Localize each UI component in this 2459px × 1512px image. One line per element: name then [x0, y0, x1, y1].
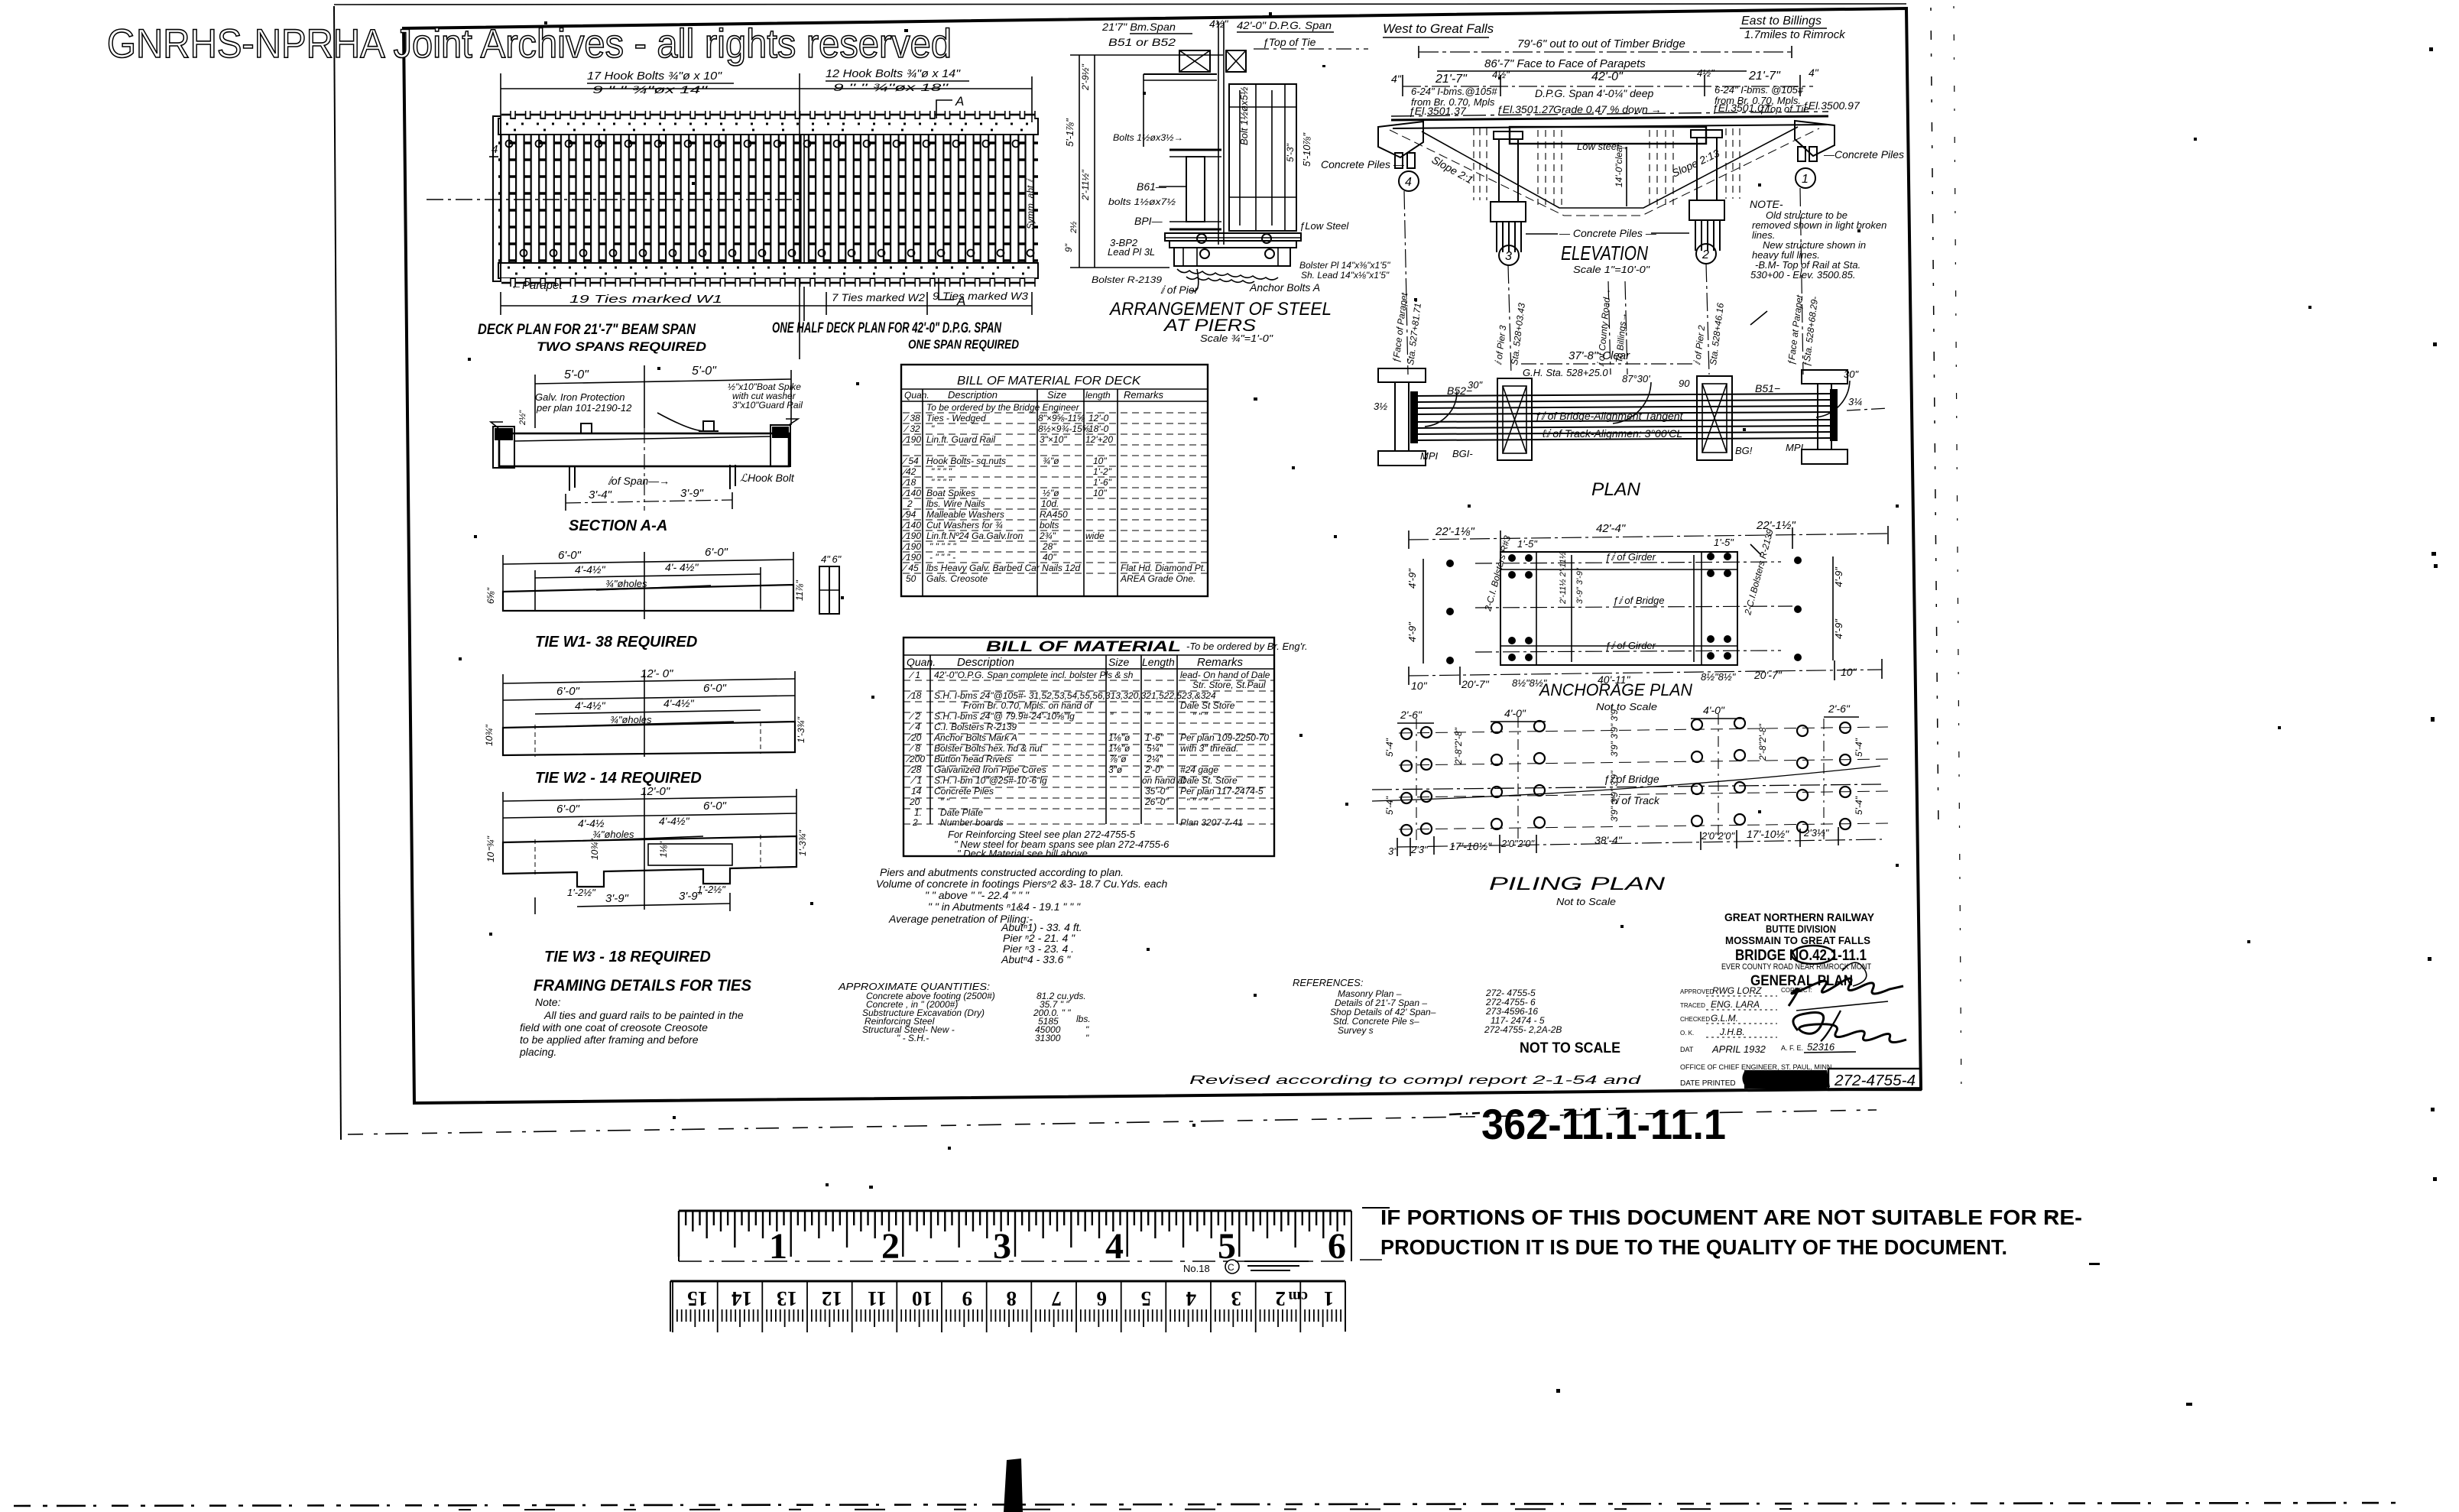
svg-text:ƒSta. 528+68.29-: ƒSta. 528+68.29-	[1801, 296, 1820, 367]
svg-text:12: 12	[822, 1287, 842, 1310]
svg-text:5: 5	[1141, 1287, 1152, 1310]
svg-text:6'-0": 6'-0"	[703, 800, 727, 813]
section arrow A bottom	[939, 278, 954, 300]
svg-text:MPI: MPI	[1420, 450, 1439, 462]
svg-text:Not to Scale: Not to Scale	[1556, 896, 1616, 907]
svg-text:Survey s: Survey s	[1338, 1025, 1374, 1036]
svg-text:2½": 2½"	[518, 410, 527, 426]
svg-text:2: 2	[1276, 1287, 1286, 1310]
svg-text:6'-0": 6'-0"	[703, 682, 727, 695]
svg-text:NOTE-: NOTE-	[1750, 198, 1783, 210]
svg-text:1'-5": 1'-5"	[1517, 538, 1538, 550]
svg-text:2'0"2'0": 2'0"2'0"	[1701, 830, 1735, 842]
svg-text:11⅞": 11⅞"	[794, 580, 805, 601]
svg-text:∕ 54: ∕ 54	[901, 456, 919, 466]
svg-text:Dale St. Store: Dale St. Store	[1180, 775, 1238, 786]
svg-text:20'-7": 20'-7"	[1753, 669, 1783, 681]
svg-text:28": 28"	[1042, 541, 1056, 552]
svg-text:4": 4"	[1809, 67, 1819, 79]
svg-text:14: 14	[911, 786, 922, 797]
svg-text:6-24" I-bms.@105#: 6-24" I-bms.@105#	[1411, 86, 1497, 97]
svg-text:1⅛": 1⅛"	[658, 841, 669, 858]
svg-text:ⅈ of Pier: ⅈ of Pier	[1160, 284, 1199, 296]
svg-text:Date Plate: Date Plate	[940, 807, 983, 818]
svg-text:17'-10½": 17'-10½"	[1449, 840, 1492, 852]
svg-text:": "	[1147, 711, 1150, 722]
svg-text:lead- On hand of Dale: lead- On hand of Dale	[1180, 670, 1270, 680]
svg-text:cm: cm	[1288, 1288, 1308, 1305]
main border frame	[404, 8, 1921, 1103]
svg-text:4'-4½": 4'-4½"	[659, 815, 690, 827]
tie W3 notched bar	[503, 836, 796, 887]
svg-text:4" 6": 4" 6"	[821, 553, 842, 565]
svg-text:#24 gage: #24 gage	[1180, 764, 1218, 775]
svg-text:4": 4"	[1391, 73, 1402, 85]
angle arcs	[1425, 391, 1457, 427]
svg-text:2'-8"2'-8": 2'-8"2'-8"	[1453, 727, 1464, 765]
tie W2 group	[484, 667, 806, 787]
svg-text:3: 3	[1505, 250, 1512, 263]
girder and bridge centerlines	[1475, 562, 1781, 563]
svg-text:5'-4": 5'-4"	[1854, 738, 1864, 757]
svg-text:10": 10"	[1841, 666, 1857, 678]
svg-text:Note:: Note:	[535, 996, 561, 1008]
svg-text:5'-4": 5'-4"	[1384, 796, 1395, 815]
top dim line	[1409, 534, 1888, 540]
svg-text:Dale St Store: Dale St Store	[1180, 700, 1235, 711]
bolster plate stack	[1165, 233, 1301, 241]
svg-text:RA450: RA450	[1040, 509, 1068, 520]
pile circles left abutment	[1401, 727, 1432, 835]
svg-text:—Concrete Piles: —Concrete Piles	[1823, 148, 1904, 161]
anchorage plan group	[1406, 519, 1888, 712]
svg-text:10d.: 10d.	[1041, 498, 1059, 509]
faint vertical fold line 1	[1931, 8, 1938, 829]
svg-text:1.7miles to Rimrock: 1.7miles to Rimrock	[1744, 28, 1846, 41]
svg-text:" - S.H.-: " - S.H.-	[897, 1033, 929, 1043]
svg-text:∕94: ∕94	[901, 509, 916, 520]
svg-text:∕200: ∕200	[905, 754, 925, 764]
svg-text:13: 13	[777, 1287, 797, 1310]
bridge and track centerlines	[1372, 784, 1882, 790]
piling plan group	[1372, 702, 1888, 907]
svg-text:5'-10⅞": 5'-10⅞"	[1301, 132, 1312, 167]
svg-text:∕ 38: ∕ 38	[903, 413, 920, 423]
svg-text:" Deck Material see bill: " Deck Material see bill above.	[957, 848, 1090, 859]
svg-text:J.H.B.: J.H.B.	[1719, 1027, 1745, 1037]
svg-text:2'-11½": 2'-11½"	[1080, 170, 1091, 201]
svg-text:3¼: 3¼	[1848, 396, 1862, 407]
sheet outer trim line left	[334, 6, 341, 1140]
svg-text:Concrete Piles: Concrete Piles	[934, 786, 994, 797]
cm ruler	[670, 1281, 1345, 1332]
svg-text:2'-6": 2'-6"	[1400, 709, 1423, 721]
bottom dim line	[1397, 839, 1882, 847]
svg-text:OFFICE OF CHIEF ENGINEER, ST.: OFFICE OF CHIEF ENGINEER, ST. PAUL, MINN…	[1680, 1063, 1834, 1071]
svg-text:D.P.G. Span 4'-0¼" deep: D.P.G. Span 4'-0¼" deep	[1535, 87, 1653, 99]
svg-text:B51−: B51−	[1755, 382, 1780, 394]
svg-text:21'-7": 21'-7"	[1435, 73, 1468, 86]
svg-text:12'-0: 12'-0	[1088, 413, 1109, 423]
svg-text:ONE SPAN REQUIRED: ONE SPAN REQUIRED	[908, 337, 1019, 352]
svg-text:8½"8½": 8½"8½"	[1701, 671, 1737, 683]
svg-text:SECTION A-A: SECTION A-A	[569, 518, 667, 534]
angle marks on beam ends	[491, 422, 503, 428]
svg-text:12'-0": 12'-0"	[641, 785, 670, 798]
concrete rough texture	[1177, 269, 1278, 280]
svg-text:2-C.I.Bolsters R-2139: 2-C.I.Bolsters R-2139	[1742, 527, 1776, 616]
svg-text:30": 30"	[1844, 368, 1859, 380]
svg-text:BILL OF MATERIAL FOR DECK: BILL OF MATERIAL FOR DECK	[957, 375, 1141, 388]
deck left end post	[493, 116, 501, 281]
right abutment plan	[1802, 370, 1847, 384]
references	[1293, 977, 1562, 1036]
svg-text:3"x10"Guard Rail: 3"x10"Guard Rail	[732, 400, 803, 410]
svg-text:All ties and guard rails to be: All ties and guard rails to be painted i…	[543, 1009, 744, 1021]
svg-text:Plan 3207-7-41: Plan 3207-7-41	[1180, 817, 1243, 828]
svg-text:7 Ties marked W2: 7 Ties marked W2	[832, 291, 925, 303]
svg-text:Anchor Bolts A: Anchor Bolts A	[1249, 281, 1320, 294]
svg-text:TRACED: TRACED	[1680, 1002, 1705, 1009]
svg-text:3'-9": 3'-9"	[605, 892, 629, 905]
svg-text:12'- 0": 12'- 0"	[641, 667, 673, 680]
svg-text:22'-1⅛": 22'-1⅛"	[1435, 525, 1474, 538]
svg-text:1'-5": 1'-5"	[1714, 537, 1734, 548]
svg-text:∕42: ∕42	[901, 466, 916, 477]
note block	[519, 996, 744, 1058]
svg-text:42'-4": 42'-4"	[1596, 522, 1626, 535]
svg-text:Galvanized Iron Pipe Cores: Galvanized Iron Pipe Cores	[934, 764, 1046, 775]
svg-text:" " " " ": " " " " "	[929, 541, 956, 552]
svg-text:∕140: ∕140	[901, 520, 921, 530]
svg-text:3'-9" 3'-9": 3'-9" 3'-9"	[1575, 567, 1585, 604]
svg-text:14'-0"clear: 14'-0"clear	[1614, 143, 1624, 187]
left bolt column	[1423, 559, 1424, 664]
svg-text:ⅈ of Pier 2: ⅈ of Pier 2	[1692, 324, 1707, 365]
svg-text:Quan.: Quan.	[907, 656, 936, 668]
svg-text:PLAN: PLAN	[1591, 479, 1641, 500]
svg-text:362-11.1-11.1: 362-11.1-11.1	[1481, 1100, 1726, 1148]
svg-text:17 Hook Bolts ¾"ø x 10": 17 Hook Bolts ¾"ø x 10"	[587, 70, 722, 83]
svg-text:6'-0": 6'-0"	[705, 546, 728, 559]
svg-text:∕18: ∕18	[901, 477, 916, 488]
svg-text:2: 2	[912, 817, 918, 828]
svg-text:Description: Description	[957, 656, 1014, 669]
svg-text:10¾": 10¾"	[589, 839, 600, 860]
deck bottom rail	[498, 263, 1038, 278]
svg-text:2¾": 2¾"	[1039, 530, 1056, 541]
svg-text:2'-6": 2'-6"	[1828, 702, 1851, 715]
tie W1 group	[485, 546, 842, 651]
svg-text:" " " ": " " " "	[931, 477, 952, 488]
svg-text:" " in Abutments ⁿ1&: " " in Abutments ⁿ1&4 - 19.1 " " "	[928, 900, 1081, 913]
arrangement of steel at piers	[1063, 18, 1390, 344]
right bolt column	[1832, 556, 1834, 660]
svg-text:5'-0": 5'-0"	[692, 365, 717, 378]
svg-text:Lin.ft. Guard Rail: Lin.ft. Guard Rail	[926, 434, 995, 445]
svg-text:Slope 2:1: Slope 2:1	[1430, 154, 1476, 187]
svg-text:Bolts 1½øx3½→: Bolts 1½øx3½→	[1113, 132, 1183, 143]
left beam span deck lines	[1144, 73, 1217, 75]
piers and abutments note	[876, 866, 1167, 965]
svg-text:": "	[1110, 711, 1114, 722]
svg-text:5: 5	[1218, 1226, 1236, 1267]
deck top rail spikes	[506, 123, 1038, 125]
svg-text:4'-9": 4'-9"	[1406, 621, 1418, 642]
svg-text:on hand at: on hand at	[1142, 775, 1186, 786]
pile circles right abutment	[1797, 722, 1851, 832]
svg-text:10": 10"	[1411, 680, 1428, 692]
svg-text:ƒEl.3500.97: ƒEl.3500.97	[1802, 99, 1860, 112]
svg-text:3: 3	[1231, 1287, 1242, 1310]
svg-text:Slope 2:13: Slope 2:13	[1670, 147, 1722, 180]
svg-text:52316: 52316	[1807, 1041, 1835, 1053]
svg-text:2'-8"2'-8": 2'-8"2'-8"	[1757, 723, 1768, 761]
svg-text:1⅛"ø: 1⅛"ø	[1108, 732, 1131, 743]
bottom dim line	[1409, 670, 1882, 676]
stray specks right margin	[869, 47, 2438, 1406]
svg-text:" " " " ": " " " " "	[1186, 797, 1213, 807]
svg-text:DATE PRINTED: DATE PRINTED	[1680, 1079, 1736, 1088]
svg-text:— Concrete Piles —: — Concrete Piles —	[1559, 227, 1657, 239]
svg-text:To be ordered by the Bridge E: To be ordered by the Bridge Engineer	[926, 402, 1080, 413]
svg-text:272-4755-4: 272-4755-4	[1834, 1072, 1916, 1089]
date row	[1680, 1044, 1803, 1053]
elevation group	[1321, 15, 1904, 378]
svg-text:Length: Length	[1142, 656, 1175, 668]
svg-text:3'-9": 3'-9"	[680, 487, 704, 500]
svg-text:C: C	[1228, 1262, 1234, 1273]
svg-text:9: 9	[962, 1287, 973, 1310]
svg-text:Size: Size	[1047, 389, 1066, 401]
dimension frame left	[1079, 55, 1080, 268]
svg-text:2'0"2'0": 2'0"2'0"	[1500, 838, 1535, 849]
svg-text:Anchor Bolts Mark A: Anchor Bolts Mark A	[933, 732, 1017, 743]
left I-beam	[1169, 149, 1221, 151]
smudge	[1744, 1070, 1827, 1089]
svg-text:4'-4½": 4'-4½"	[575, 699, 606, 712]
svg-text:530+00 - Elev. 3500.85.: 530+00 - Elev. 3500.85.	[1750, 269, 1855, 281]
svg-text:11: 11	[867, 1287, 887, 1310]
right abutment	[1795, 121, 1835, 156]
svg-text:Gals. Creosote: Gals. Creosote	[926, 573, 988, 584]
svg-text:9": 9"	[1063, 243, 1074, 252]
svg-text:Malleable Washers: Malleable Washers	[926, 509, 1004, 520]
deck top dimension line	[501, 88, 1032, 89]
sheet outer trim line top	[334, 4, 1906, 5]
svg-text:to be applied after framing an: to be applied after framing and before	[520, 1033, 699, 1046]
svg-text:wide: wide	[1085, 530, 1105, 541]
svg-text:2½: 2½	[1069, 222, 1079, 234]
svg-text:Number boards: Number boards	[940, 817, 1004, 828]
svg-text:12 Hook Bolts ¾"ø x 14": 12 Hook Bolts ¾"ø x 14"	[826, 67, 961, 80]
svg-text:∕ 1: ∕ 1	[908, 670, 920, 680]
svg-text:ƒⅈ of Bridge: ƒⅈ of Bridge	[1613, 595, 1664, 606]
svg-text:BPI—: BPI—	[1134, 215, 1163, 227]
ties count dimension line	[501, 305, 1032, 307]
svg-text:87°30': 87°30'	[1622, 373, 1650, 384]
svg-text:2'-9½": 2'-9½"	[1080, 63, 1091, 91]
svg-text:ƒⅈ of Girder: ƒⅈ of Girder	[1605, 640, 1656, 651]
girder vertical centerline	[1218, 21, 1219, 245]
bottom edge noise	[14, 1503, 2400, 1506]
svg-text:38'-4": 38'-4"	[1594, 834, 1623, 846]
svg-text:" " above ": " " above " "- 22.4 " " "	[925, 889, 1030, 901]
svg-text:Concrete Piles —: Concrete Piles —	[1321, 158, 1405, 170]
svg-text:4'-4½": 4'-4½"	[575, 563, 606, 576]
bolt holes top row	[506, 141, 1020, 148]
svg-text:2-C.I. Bolsters R#3: 2-C.I. Bolsters R#3	[1482, 534, 1513, 613]
svg-text:1: 1	[1324, 1287, 1335, 1310]
svg-text:IF PORTIONS OF THIS DOCUMENT A: IF PORTIONS OF THIS DOCUMENT ARE NOT SUI…	[1380, 1205, 2082, 1229]
svg-text:10": 10"	[1093, 488, 1107, 498]
svg-text:10¾": 10¾"	[484, 725, 495, 746]
svg-text:∕140: ∕140	[901, 488, 921, 498]
bolt holes bottom row	[521, 250, 1034, 257]
svg-text:BG!: BG!	[1735, 445, 1753, 456]
svg-text:2: 2	[881, 1226, 900, 1267]
svg-text:A: A	[955, 94, 964, 109]
station verticals	[1404, 188, 1803, 375]
svg-text:1'-6": 1'-6"	[1093, 477, 1112, 488]
svg-text:AREA Grade One.: AREA Grade One.	[1120, 573, 1195, 584]
svg-text:4: 4	[1105, 1226, 1124, 1267]
svg-text:Cut Washers for ¾: Cut Washers for ¾	[926, 520, 1003, 530]
svg-text:∕ 32: ∕ 32	[903, 423, 920, 434]
svg-text:12'+20: 12'+20	[1085, 434, 1113, 445]
svg-text:4'-9": 4'-9"	[1833, 566, 1844, 587]
svg-text:∕190: ∕190	[901, 530, 921, 541]
svg-text:3'-4": 3'-4"	[589, 488, 612, 501]
svg-text:5'-4": 5'-4"	[1384, 738, 1395, 757]
svg-text:ELEVATION: ELEVATION	[1561, 242, 1648, 264]
plan view group	[1374, 368, 1888, 500]
main span dims	[1403, 86, 1813, 87]
bill of material main table	[903, 638, 1308, 859]
svg-text:GNRHS-NPRHA Joint Archives - a: GNRHS-NPRHA Joint Archives - all rights …	[107, 21, 952, 67]
svg-text:APRIL 1932: APRIL 1932	[1711, 1043, 1766, 1055]
svg-text:¾"ø: ¾"ø	[1043, 456, 1059, 466]
svg-text:ⅈof Span—→: ⅈof Span—→	[608, 475, 670, 487]
svg-text:1'-6": 1'-6"	[1145, 732, 1164, 743]
svg-text:field with one coat of creosot: field with one coat of creosote Creosote	[520, 1021, 708, 1033]
svg-text:42'-0"O.P.G. Span complete in: 42'-0"O.P.G. Span complete incl. bolster…	[934, 670, 1134, 680]
svg-text:2¼": 2¼"	[1146, 754, 1163, 764]
svg-text:Lin.ft.Nº24 Ga.Galv.Iron: Lin.ft.Nº24 Ga.Galv.Iron	[926, 530, 1024, 541]
deep plate girder between piers	[1510, 127, 1706, 144]
svg-text:Button head Rivets: Button head Rivets	[934, 754, 1011, 764]
svg-text:MPI: MPI	[1786, 442, 1804, 453]
horizontal row connectors	[1399, 727, 1888, 829]
svg-text:MOSSMAIN TO GREAT FALLS: MOSSMAIN TO GREAT FALLS	[1725, 934, 1870, 946]
svg-text:Boat Spikes: Boat Spikes	[926, 488, 975, 498]
svg-text:ƒⅈ of Girder: ƒⅈ of Girder	[1605, 551, 1656, 563]
svg-text:2'3": 2'3"	[1410, 844, 1429, 855]
svg-text:CHECKED: CHECKED	[1680, 1016, 1710, 1023]
svg-text:37'-8" Clear: 37'-8" Clear	[1569, 349, 1630, 362]
svg-text:-To be ordered by Br. Eng'r.: -To be ordered by Br. Eng'r.	[1186, 641, 1308, 652]
svg-text:5'-1⅞": 5'-1⅞"	[1064, 118, 1075, 147]
svg-text:Description: Description	[948, 389, 998, 401]
svg-text:DAT: DAT	[1680, 1046, 1694, 1053]
svg-text:Per plan 109-2250-70: Per plan 109-2250-70	[1180, 732, 1269, 743]
svg-text:⅞"ø: ⅞"ø	[1110, 754, 1127, 764]
svg-text:10⁼¾": 10⁼¾"	[485, 835, 496, 862]
svg-text:Revised according to compl rep: Revised according to compl report 2-1-54…	[1189, 1074, 1642, 1087]
svg-text:¾"øholes: ¾"øholes	[592, 829, 634, 840]
svg-text:4'-4½": 4'-4½"	[663, 697, 695, 709]
svg-text:Bolster R-2139: Bolster R-2139	[1092, 274, 1162, 285]
signature approved	[1793, 1013, 1906, 1043]
svg-text:per plan 101-2190-12: per plan 101-2190-12	[536, 402, 632, 414]
svg-text:3": 3"	[1388, 845, 1398, 857]
deck plan body ties	[498, 135, 1038, 263]
svg-text:4'-9": 4'-9"	[1833, 618, 1844, 639]
inch ruler	[679, 1211, 1351, 1267]
svg-text:C.I. Bolsters R-2139: C.I. Bolsters R-2139	[934, 722, 1017, 732]
tie W3 group	[485, 785, 808, 965]
svg-text:4: 4	[1405, 176, 1412, 189]
central anchor rectangle	[1500, 552, 1737, 665]
svg-text:From Br. 0.70, Mpls. on hand: From Br. 0.70, Mpls. on hand of	[963, 700, 1093, 711]
svg-text:ANCHORAGE PLAN: ANCHORAGE PLAN	[1538, 680, 1692, 699]
old structure broken verticals	[1474, 128, 1740, 205]
svg-text:6'-0": 6'-0"	[558, 549, 582, 562]
left abutment plan	[1378, 368, 1426, 382]
svg-text:3'-9": 3'-9"	[679, 890, 702, 903]
svg-text:TIE W3 - 18 REQUIRED: TIE W3 - 18 REQUIRED	[544, 949, 711, 965]
svg-text:TIE W1- 38 REQUIRED: TIE W1- 38 REQUIRED	[535, 634, 697, 651]
right plate girder	[1229, 84, 1296, 231]
svg-text:3"ø: 3"ø	[1108, 764, 1123, 775]
signature correct	[1789, 978, 1903, 1006]
anchor bolts	[1197, 234, 1206, 243]
svg-text:G.L.M.: G.L.M.	[1711, 1013, 1738, 1024]
svg-text:∕ 45: ∕ 45	[901, 563, 919, 573]
svg-text:90: 90	[1679, 378, 1690, 389]
svg-text:EVER COUNTY ROAD NEAR RIMROCK: EVER COUNTY ROAD NEAR RIMROCK MONT	[1721, 962, 1871, 972]
svg-text:35'-0": 35'-0"	[1145, 786, 1169, 797]
svg-text:4: 4	[491, 143, 498, 156]
svg-text:with 3" thread.: with 3" thread.	[1180, 743, 1238, 754]
svg-text:21'7" Bm.Span: 21'7" Bm.Span	[1101, 21, 1176, 33]
svg-text:REFERENCES:: REFERENCES:	[1293, 977, 1364, 988]
svg-text:BILL OF MATERIAL: BILL OF MATERIAL	[986, 639, 1181, 655]
svg-text:3"×10": 3"×10"	[1040, 434, 1067, 445]
svg-text:3½: 3½	[1374, 401, 1387, 412]
section A-A group	[491, 365, 803, 534]
svg-text:ƒLow Steel: ƒLow Steel	[1299, 220, 1349, 232]
svg-text:East to Billings: East to Billings	[1741, 15, 1822, 28]
svg-text:Bolster Pl 14"x⅜"x1'5": Bolster Pl 14"x⅜"x1'5"	[1299, 260, 1390, 271]
svg-text:7: 7	[1052, 1287, 1062, 1310]
deck bottom rail tabs	[501, 278, 1038, 287]
svg-text:ℒHook Bolt: ℒHook Bolt	[740, 472, 795, 484]
svg-text:lbs. Wire Nails: lbs. Wire Nails	[926, 498, 985, 509]
main beam	[499, 433, 789, 466]
tie W1 bar	[503, 585, 793, 611]
svg-text:PRODUCTION IT IS DUE TO THE QU: PRODUCTION IT IS DUE TO THE QUALITY OF T…	[1380, 1235, 2007, 1259]
old structure outline	[1422, 127, 1798, 208]
pile circles pier 3	[1491, 721, 1545, 829]
svg-text:ℓⅈ of Track-Alignmen: 3°00'CL: ℓⅈ of Track-Alignmen: 3°00'CL	[1542, 427, 1682, 440]
bill of material for deck table	[901, 365, 1210, 596]
svg-text:1⅛"ø: 1⅛"ø	[1108, 743, 1131, 754]
deck plan half divider	[799, 122, 800, 359]
svg-text:15: 15	[687, 1287, 708, 1310]
svg-text:4: 4	[1186, 1287, 1197, 1310]
svg-text:ENG. LARA: ENG. LARA	[1711, 999, 1760, 1010]
